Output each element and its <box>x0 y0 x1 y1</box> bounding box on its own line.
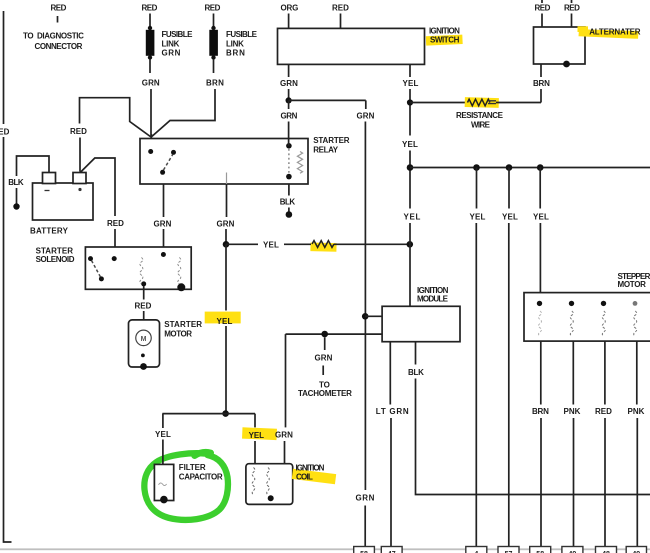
svg-text:YEL: YEL <box>533 213 549 222</box>
svg-text:GRN: GRN <box>357 112 375 121</box>
resistance wire <box>410 97 541 130</box>
svg-text:TO DIAGNOSTIC: TO DIAGNOSTIC <box>23 32 84 41</box>
svg-text:RED: RED <box>595 407 612 416</box>
wire BLK relay ground <box>280 184 296 218</box>
wire RED solenoid to starter motor <box>135 286 152 320</box>
svg-text:CAPACITOR: CAPACITOR <box>179 473 223 482</box>
svg-text:RELAY: RELAY <box>313 145 339 154</box>
node V junction into relay <box>150 134 152 139</box>
svg-text:BLK: BLK <box>8 178 24 187</box>
svg-text:YEL: YEL <box>403 79 419 88</box>
wire GRN to ignition coil <box>275 334 293 464</box>
svg-text:RED: RED <box>107 219 124 228</box>
svg-text:YEL: YEL <box>402 140 418 149</box>
wire GRN switch down <box>280 64 366 145</box>
terminal 57 <box>498 547 519 553</box>
grey scan line bottom <box>0 548 650 550</box>
svg-text:LINK: LINK <box>162 39 180 48</box>
svg-text:RED: RED <box>142 4 158 13</box>
svg-text:ORG: ORG <box>281 4 299 13</box>
wire RED battery to solenoid <box>80 158 124 247</box>
starter solenoid <box>36 247 192 292</box>
wire YEL main vertical <box>205 244 241 413</box>
svg-text:RED: RED <box>564 4 580 13</box>
svg-text:WIRE: WIRE <box>471 121 491 130</box>
svg-text:RED: RED <box>332 4 349 13</box>
wire GRN tachometer branch <box>286 331 383 398</box>
wire RED relay-to-battery <box>70 98 151 172</box>
green annotation circle around filter capacitor <box>144 452 228 520</box>
terminal 48 <box>596 547 617 553</box>
svg-text:YEL: YEL <box>404 213 421 222</box>
svg-text:GRN: GRN <box>154 220 172 229</box>
svg-text:YEL: YEL <box>263 241 279 250</box>
svg-text:GRN: GRN <box>315 354 333 363</box>
svg-text:GRN: GRN <box>281 112 298 121</box>
svg-text:BATTERY: BATTERY <box>30 227 69 236</box>
svg-text:MODULE: MODULE <box>417 294 449 303</box>
svg-text:MOTOR: MOTOR <box>164 330 192 339</box>
svg-text:COIL: COIL <box>296 472 313 481</box>
svg-text:GRN: GRN <box>162 49 181 58</box>
svg-text:GRN: GRN <box>217 220 235 229</box>
wire YEL branch 3 <box>502 168 518 548</box>
svg-text:GRN: GRN <box>275 430 293 439</box>
terminal 47 <box>381 547 402 553</box>
svg-text:STARTER: STARTER <box>164 320 202 329</box>
wire BRN stepper <box>532 341 549 547</box>
svg-text:SOLENOID: SOLENOID <box>36 255 75 264</box>
wire PNK stepper 1 <box>564 341 581 547</box>
wire RED stepper <box>595 341 612 547</box>
svg-text:BRN: BRN <box>533 79 550 88</box>
stepper motor <box>524 272 650 341</box>
label TO DIAGNOSTIC CONNECTOR <box>23 4 84 52</box>
svg-text:SWITCH: SWITCH <box>430 35 460 44</box>
alternator <box>534 0 641 67</box>
svg-text:RED: RED <box>535 4 551 13</box>
terminal 49b <box>626 547 646 553</box>
svg-text:BLK: BLK <box>408 368 424 377</box>
wire GRN relay to solenoid <box>154 184 172 248</box>
wire YEL from switch <box>402 64 421 306</box>
terminal 4 <box>466 547 487 553</box>
svg-text:BRN: BRN <box>206 79 224 88</box>
wire BRN alternator to resistance <box>533 64 550 103</box>
svg-text:RESISTANCE: RESISTANCE <box>456 111 504 120</box>
svg-text:LINK: LINK <box>226 39 244 48</box>
wire YEL branch 4 to stepper <box>533 168 549 293</box>
ignition switch <box>278 4 463 65</box>
svg-text:IGNITION: IGNITION <box>296 463 325 472</box>
wire RED left border <box>0 11 12 542</box>
svg-text:M: M <box>141 336 147 343</box>
fusible link GRN <box>142 4 194 138</box>
svg-text:YEL: YEL <box>217 317 233 326</box>
svg-text:FILTER: FILTER <box>179 463 206 472</box>
svg-text:YEL: YEL <box>155 430 171 439</box>
svg-text:IGNITION: IGNITION <box>429 27 460 36</box>
svg-text:GRN: GRN <box>280 79 298 88</box>
ignition module <box>382 286 460 342</box>
svg-text:BRN: BRN <box>226 49 245 58</box>
battery <box>30 173 93 236</box>
wire PNK stepper 2 <box>628 341 645 547</box>
svg-text:CONNECTOR: CONNECTOR <box>35 42 83 51</box>
svg-text:BLK: BLK <box>280 198 296 207</box>
svg-text:TACHOMETER: TACHOMETER <box>298 389 352 398</box>
wire BLK battery ground <box>8 156 49 210</box>
svg-text:YEL: YEL <box>470 213 486 222</box>
svg-text:FUSIBLE: FUSIBLE <box>226 30 258 39</box>
starter relay U-relay <box>140 136 350 184</box>
highlight YEL coil <box>242 427 277 440</box>
wire GRN relay to junction <box>217 184 235 244</box>
terminal 49 <box>562 547 583 553</box>
svg-text:LT GRN: LT GRN <box>376 407 409 416</box>
wire GRN long vertical to module <box>356 100 383 547</box>
svg-text:PNK: PNK <box>628 407 645 416</box>
svg-text:YEL: YEL <box>249 431 265 440</box>
wire YEL to ignition coil <box>249 414 265 464</box>
wire LT GRN <box>376 342 409 547</box>
svg-text:ALTERNATER: ALTERNATER <box>589 27 641 36</box>
svg-text:BRN: BRN <box>532 407 549 416</box>
wire YEL to filter capacitor <box>155 414 171 465</box>
svg-text:STARTER: STARTER <box>313 136 350 145</box>
svg-text:RED: RED <box>0 128 10 137</box>
svg-text:FUSIBLE: FUSIBLE <box>162 30 194 39</box>
svg-text:RED: RED <box>51 4 67 13</box>
svg-text:GRN: GRN <box>142 79 160 88</box>
wire YEL branch 2 <box>470 168 486 548</box>
svg-text:YEL: YEL <box>502 213 518 222</box>
svg-text:RED: RED <box>70 127 87 136</box>
ignition coil <box>246 463 336 504</box>
node YEL tee to capacitor and coil <box>162 410 255 417</box>
fusible link BRN <box>152 4 258 137</box>
svg-text:PNK: PNK <box>564 407 581 416</box>
svg-text:MOTOR: MOTOR <box>618 280 647 289</box>
highlight on resistor <box>310 242 336 251</box>
svg-text:GRN: GRN <box>356 494 375 503</box>
bus YEL horizontal <box>410 164 650 171</box>
starter motor <box>129 320 203 370</box>
filter capacitor <box>154 463 223 503</box>
wire BLK module <box>408 342 650 495</box>
svg-text:RED: RED <box>135 302 152 311</box>
terminal 58 <box>354 547 375 553</box>
wire YEL with resistance (relay row) <box>223 241 413 250</box>
terminal 58b <box>530 547 551 553</box>
svg-text:RED: RED <box>205 4 221 13</box>
